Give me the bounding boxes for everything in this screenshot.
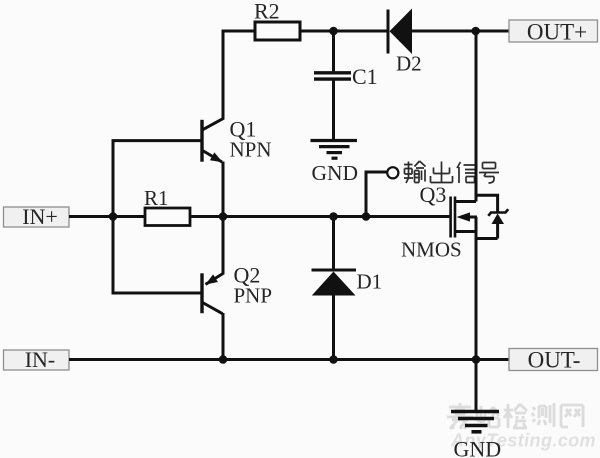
svg-text:D2: D2 [396, 52, 422, 76]
峪 [477, 406, 499, 427]
node OUT- junction [472, 355, 481, 364]
diode D1 [312, 217, 383, 360]
node output-signal tap junction [362, 212, 371, 221]
terminal box IN- [4, 347, 70, 372]
测 [532, 403, 554, 427]
wire top bus left segment [223, 30, 256, 33]
node left bus junction [109, 212, 118, 221]
svg-text:IN-: IN- [25, 347, 56, 372]
watermark 嘉峪检测网 [447, 403, 583, 429]
wire OUT+ down to Q3 drain [475, 31, 478, 202]
body diode branch [476, 195, 498, 212]
svg-text:PNP: PNP [234, 284, 273, 308]
wire Q2 base [112, 292, 202, 295]
wire Q3 source down to bottom bus [475, 217, 478, 360]
wire Q2 collector [222, 313, 225, 360]
网 [561, 405, 583, 427]
wire left base bus [112, 141, 115, 293]
zener triangle [492, 214, 505, 225]
transistor Q1 [202, 117, 272, 163]
node D1 bottom junction [329, 355, 338, 364]
terminal box OUT+ [509, 20, 598, 45]
输 [404, 161, 426, 183]
node Q2 collector junction [219, 355, 228, 364]
ground under C1 [311, 141, 358, 159]
检 [504, 404, 527, 428]
wire D2 to OUT+ [412, 30, 509, 33]
wire mid bus to Q3 gate [190, 215, 449, 218]
wire bottom bus [69, 358, 509, 361]
node C1 top junction [329, 27, 338, 36]
body arrow [457, 212, 471, 221]
svg-text:R2: R2 [254, 0, 280, 24]
wire to bottom ground [475, 360, 478, 413]
号 [479, 163, 499, 184]
嘉 [447, 403, 473, 429]
channel bar [454, 197, 457, 238]
capacitor C1 [314, 31, 378, 140]
node emitters junction [219, 212, 228, 221]
terminal box OUT- [509, 348, 598, 373]
wire R2 to D2 [300, 30, 387, 33]
svg-text:IN+: IN+ [22, 204, 58, 229]
transistor Q2 [202, 263, 272, 314]
resistor R1 [145, 208, 190, 226]
ground bottom right [451, 412, 499, 432]
resistor R2 [255, 22, 300, 40]
label 输出信号 [404, 161, 499, 183]
transistor Q3 [401, 182, 508, 262]
wire Q1 emitter [222, 162, 225, 217]
svg-text:OUT-: OUT- [528, 348, 581, 373]
wire Q1 base [112, 139, 202, 142]
node output-signal wire [365, 167, 399, 216]
svg-text:D1: D1 [357, 270, 383, 294]
diode D2 [388, 9, 422, 76]
svg-text:C1: C1 [352, 64, 378, 89]
svg-text:NPN: NPN [230, 138, 272, 162]
svg-text:Q3: Q3 [420, 182, 447, 207]
drain stub [455, 200, 476, 203]
terminal box IN+ [4, 204, 70, 229]
svg-text:GND: GND [454, 437, 502, 458]
wire Q2 emitter [222, 217, 225, 275]
source stub [455, 230, 476, 233]
zener bar with ticks [488, 209, 508, 216]
node D1 top junction [329, 212, 338, 221]
svg-text:OUT+: OUT+ [527, 20, 587, 45]
svg-text:NMOS: NMOS [401, 238, 462, 262]
svg-text:GND: GND [312, 161, 359, 185]
node OUT+ junction [471, 27, 480, 36]
信 [457, 162, 477, 183]
wire IN+ to R1 [69, 215, 146, 218]
gate bar [449, 197, 452, 238]
wire Q1 collector [222, 30, 225, 120]
svg-text:R1: R1 [144, 186, 169, 210]
出 [431, 162, 453, 183]
